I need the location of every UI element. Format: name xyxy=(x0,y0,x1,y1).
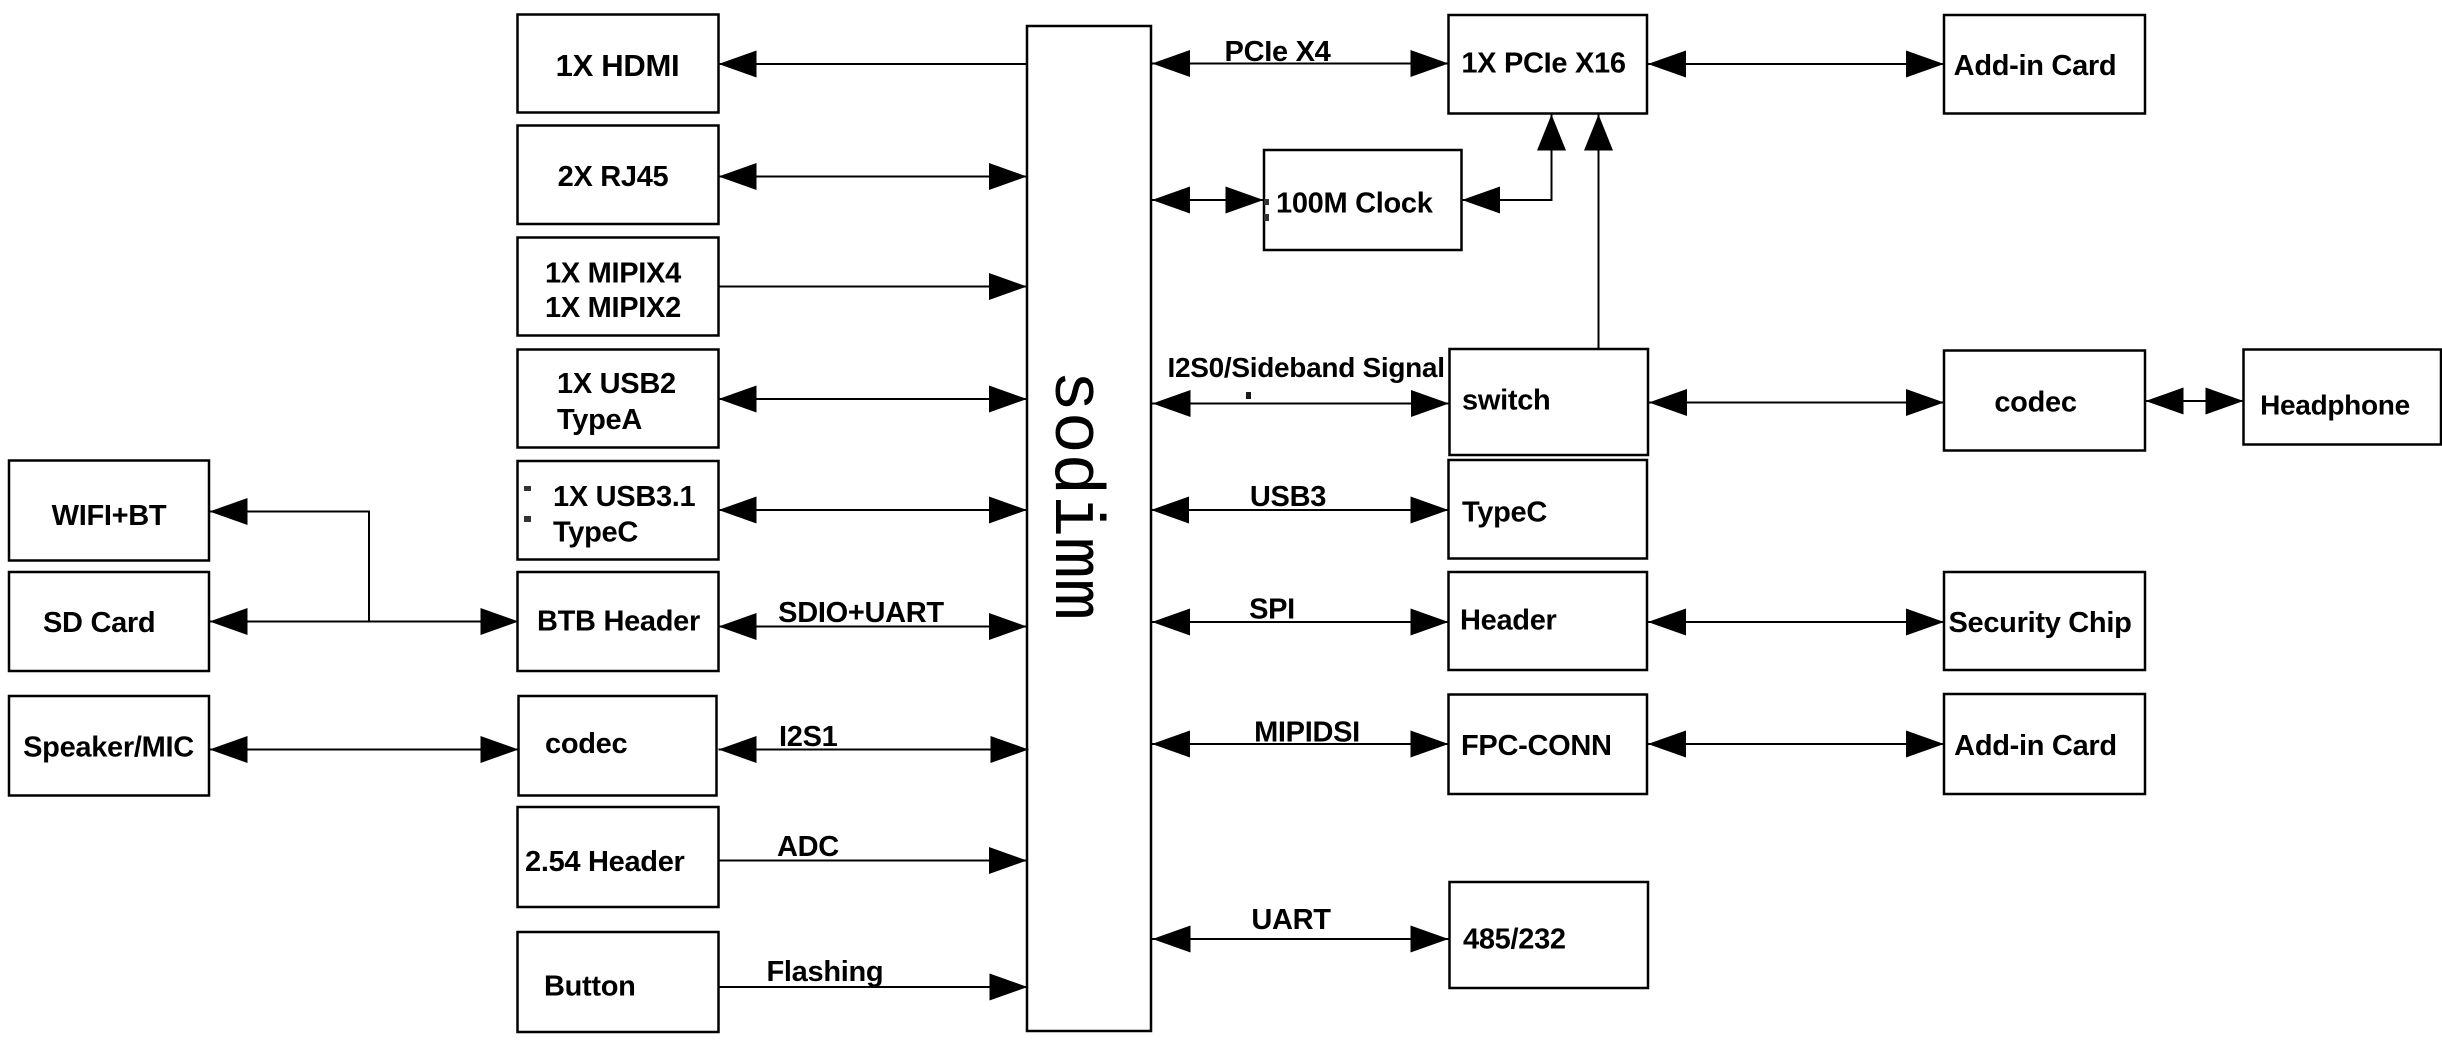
svg-text:Security Chip: Security Chip xyxy=(1948,607,2131,639)
box 100M Clock xyxy=(1264,150,1462,250)
svg-text:ADC: ADC xyxy=(777,831,839,863)
svg-text:I2S0/Sideband Signal: I2S0/Sideband Signal xyxy=(1168,352,1445,383)
svg-text:codec: codec xyxy=(545,728,627,760)
svg-text:UART: UART xyxy=(1251,904,1331,936)
label 1X MIPIX4 xyxy=(545,258,681,290)
svg-text:FPC-CONN: FPC-CONN xyxy=(1461,730,1612,762)
svg-text:SD Card: SD Card xyxy=(43,607,155,639)
wire SDIO+UART BTB Header to sodimm xyxy=(719,613,1028,640)
label sodimm (vertical) xyxy=(1034,370,1113,620)
wire USB2 to sodimm xyxy=(719,386,1028,413)
label TypeA xyxy=(557,404,642,436)
wire Header to Security Chip xyxy=(1647,609,1944,636)
wire SD Card to BTB Header xyxy=(210,608,519,635)
label switch xyxy=(1462,385,1550,417)
box 1X USB3.1 TypeC xyxy=(518,461,719,560)
wire MIPI to sodimm xyxy=(719,273,1028,300)
box 2.54 Header xyxy=(518,807,719,907)
box sodimm xyxy=(1027,26,1151,1031)
box TypeC xyxy=(1449,460,1648,559)
wire RJ45 to sodimm xyxy=(719,163,1028,190)
wire MIPIDSI sodimm to FPC-CONN xyxy=(1151,731,1449,758)
svg-text:Add-in Card: Add-in Card xyxy=(1954,50,2117,82)
net label SPI xyxy=(1249,594,1295,626)
box 485/232 xyxy=(1450,882,1649,988)
svg-text:1X HDMI: 1X HDMI xyxy=(556,48,680,83)
svg-text:BTB Header: BTB Header xyxy=(537,606,700,638)
label SD Card xyxy=(43,607,155,639)
net label USB3 xyxy=(1250,481,1326,513)
wire HDMI to sodimm xyxy=(719,51,1029,78)
wire SPI sodimm to Header xyxy=(1151,609,1449,636)
svg-text:TypeA: TypeA xyxy=(557,404,642,436)
svg-text:1X MIPIX4: 1X MIPIX4 xyxy=(545,258,681,290)
wire ADC 2.54 Header to sodimm xyxy=(719,847,1028,874)
svg-text:Add-in Card: Add-in Card xyxy=(1954,730,2117,762)
net label I2S0/Sideband Signal xyxy=(1168,352,1445,383)
svg-text:sodimm: sodimm xyxy=(1034,370,1113,620)
label FPC-CONN xyxy=(1461,730,1612,762)
label Header xyxy=(1460,605,1557,637)
net label I2S1 xyxy=(779,721,838,753)
svg-text:SPI: SPI xyxy=(1249,594,1295,626)
svg-text:USB3: USB3 xyxy=(1250,481,1326,513)
label 100M Clock xyxy=(1276,188,1434,220)
net label UART xyxy=(1251,904,1331,936)
label 1X MIPIX2 xyxy=(545,292,681,324)
wire USB3.1 to sodimm xyxy=(719,497,1028,524)
wire Speaker/MIC to codec xyxy=(210,736,519,763)
label 1X HDMI xyxy=(556,48,680,83)
svg-text:Header: Header xyxy=(1460,605,1557,637)
label TypeC line2 xyxy=(553,517,638,549)
box 1X PCIe X16 xyxy=(1449,15,1648,114)
wire PCIe X4 sodimm to PCIe X16 xyxy=(1151,50,1449,77)
net label PCIe X4 xyxy=(1225,36,1331,68)
label 1X PCIe X16 xyxy=(1461,48,1626,80)
stray marks at 100M Clock left edge (erased text remnant) xyxy=(1264,199,1269,221)
svg-text:1X PCIe X16: 1X PCIe X16 xyxy=(1461,48,1626,80)
svg-text:Button: Button xyxy=(544,971,636,1003)
label BTB Header xyxy=(537,606,700,638)
svg-text:2.54 Header: 2.54 Header xyxy=(525,846,685,878)
box Security Chip xyxy=(1944,572,2145,670)
wire 100M Clock to PCIe X16 xyxy=(1462,114,1566,214)
wire PCIe X16 to Add-in Card xyxy=(1647,51,1944,78)
label Speaker/MIC xyxy=(23,732,194,764)
wire USB3 sodimm to TypeC xyxy=(1151,497,1449,524)
svg-text:Speaker/MIC: Speaker/MIC xyxy=(23,732,194,764)
wire sodimm to 100M Clock xyxy=(1151,187,1264,214)
svg-text:1X USB2: 1X USB2 xyxy=(557,368,676,400)
box FPC-CONN xyxy=(1449,695,1648,795)
svg-text:TypeC: TypeC xyxy=(1462,497,1547,529)
label TypeC xyxy=(1462,497,1547,529)
wire Flashing Button to sodimm xyxy=(719,974,1028,1001)
box BTB Header xyxy=(518,572,719,671)
wire I2S1 codec to sodimm xyxy=(719,736,1029,763)
box Header xyxy=(1449,572,1648,670)
label 1X USB3.1 xyxy=(553,481,696,513)
box switch xyxy=(1450,349,1649,455)
label Add-in Card top xyxy=(1954,50,2117,82)
stray mark (erased text remnant) xyxy=(1246,392,1251,399)
svg-text:Flashing: Flashing xyxy=(767,956,884,988)
label codec left xyxy=(545,728,627,760)
box WIFI+BT xyxy=(9,461,209,561)
wire FPC-CONN to Add-in Card xyxy=(1647,731,1944,758)
svg-text:1X USB3.1: 1X USB3.1 xyxy=(553,481,696,513)
svg-text:SDIO+UART: SDIO+UART xyxy=(778,597,944,629)
wire switch to PCIe X16 xyxy=(1584,114,1613,349)
svg-text:MIPIDSI: MIPIDSI xyxy=(1254,717,1360,749)
wire codec to Headphone xyxy=(2145,388,2244,415)
label 1X USB2 xyxy=(557,368,676,400)
net label ADC xyxy=(777,831,839,863)
label 2X RJ45 xyxy=(558,161,669,193)
box 1X MIPIX4/1X MIPIX2 xyxy=(518,238,719,336)
box Add-in Card bottom xyxy=(1944,694,2145,794)
label WIFI+BT xyxy=(52,500,167,532)
svg-text:100M Clock: 100M Clock xyxy=(1276,188,1434,220)
svg-text:2X RJ45: 2X RJ45 xyxy=(558,161,669,193)
box codec left xyxy=(519,696,717,796)
box Speaker/MIC xyxy=(9,696,209,796)
box 1X USB2 TypeA xyxy=(518,350,719,448)
net label SDIO+UART xyxy=(778,597,944,629)
label Headphone xyxy=(2260,390,2410,421)
net label MIPIDSI xyxy=(1254,717,1360,749)
box SD Card xyxy=(9,572,209,671)
svg-text:I2S1: I2S1 xyxy=(779,721,838,753)
svg-text:PCIe X4: PCIe X4 xyxy=(1225,36,1331,68)
label Security Chip xyxy=(1948,607,2131,639)
net label Flashing xyxy=(767,956,884,988)
label 2.54 Header xyxy=(525,846,685,878)
box Add-in Card top xyxy=(1944,15,2145,114)
label 485/232 xyxy=(1463,924,1566,956)
box codec right xyxy=(1944,351,2145,451)
box Button xyxy=(518,932,719,1032)
wire I2S0 sodimm to switch xyxy=(1151,390,1450,417)
svg-text:485/232: 485/232 xyxy=(1463,924,1566,956)
label codec right xyxy=(1994,387,2076,419)
svg-text:codec: codec xyxy=(1994,387,2076,419)
box 2X RJ45 xyxy=(518,126,719,225)
box Headphone xyxy=(2244,350,2442,445)
label Button xyxy=(544,971,636,1003)
svg-text:switch: switch xyxy=(1462,385,1550,417)
label Add-in Card bottom xyxy=(1954,730,2117,762)
svg-text:Headphone: Headphone xyxy=(2260,390,2410,421)
stray marks inside 1X USB3.1 box (erased text remnant) xyxy=(524,486,531,522)
wire WIFI+BT branch xyxy=(210,498,370,622)
svg-text:1X MIPIX2: 1X MIPIX2 xyxy=(545,292,681,324)
svg-text:WIFI+BT: WIFI+BT xyxy=(52,500,167,532)
wire switch to codec xyxy=(1648,389,1944,416)
box 1X HDMI xyxy=(518,15,719,113)
svg-text:TypeC: TypeC xyxy=(553,517,638,549)
wire UART sodimm to 485/232 xyxy=(1151,926,1449,953)
